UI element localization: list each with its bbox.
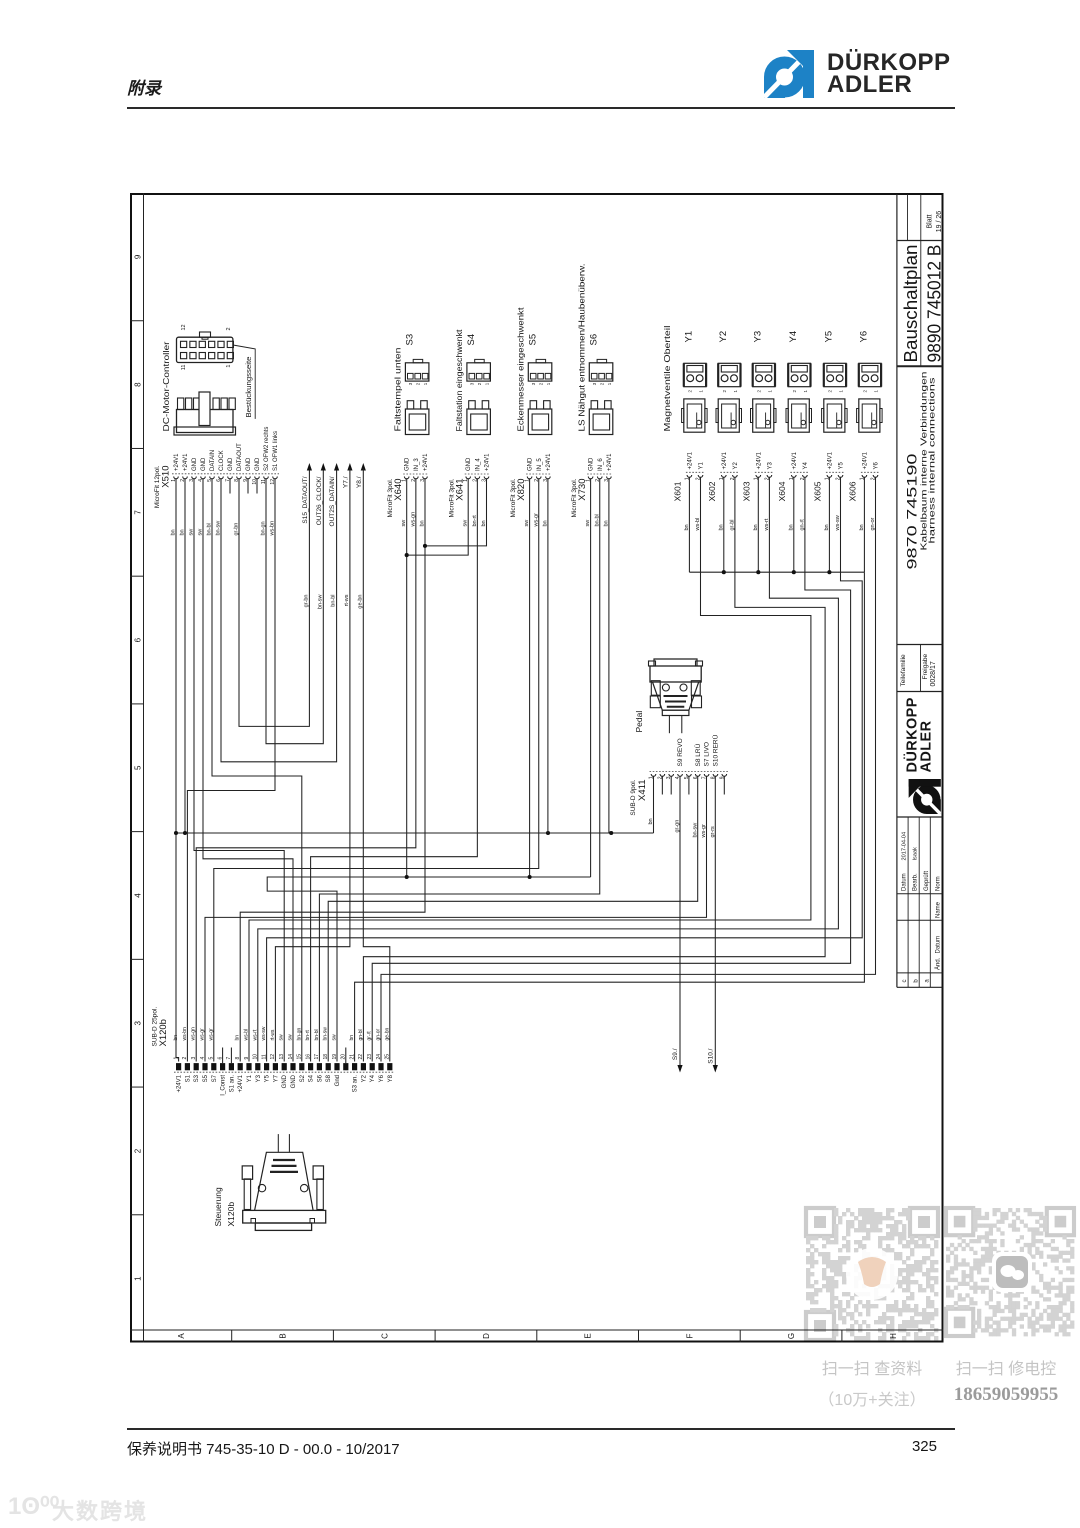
- title block section dividers: [896, 972, 942, 974]
- sensor S5 plug face view: [528, 363, 552, 381]
- wire X411 pin stubs: [661, 776, 663, 794]
- wire arrow Y7. to X120b.12: [275, 469, 350, 1062]
- valve Y4 plug side view: [788, 399, 809, 432]
- schematic sheet (rotated landscape drawing): [130, 193, 944, 1343]
- Steuerung feet: [251, 1219, 256, 1224]
- connector X604 dashed line: [790, 471, 808, 473]
- connector X640 pins: [404, 477, 409, 479]
- Pedal screw barrels: [651, 681, 660, 696]
- connector X820 dashed line: [526, 473, 551, 475]
- DC-Motor-Controller face latch: [199, 332, 210, 337]
- wire X601.1 +24V1 to valve bus: [688, 477, 690, 572]
- wire X510.5 DATAIN to X120b.15: [212, 479, 302, 1062]
- connector X605 dashed line: [825, 471, 843, 473]
- frame column strip line (numbers): [142, 193, 144, 1343]
- wire X601.2 Y1 to X120b.9: [249, 477, 811, 1061]
- title block DA logo mark: [908, 779, 940, 814]
- title block revision table row lines: [907, 817, 909, 987]
- header rule: [127, 107, 955, 109]
- connector X120b pads, pin numbers, names, colours: [176, 1063, 181, 1070]
- connector X411 dashed line: [649, 771, 728, 773]
- Steuerung screws: [244, 1179, 250, 1210]
- bottom-left watermark: [8, 1492, 59, 1521]
- connector X602 dashed line: [720, 471, 738, 473]
- wire X641.1 GND joins X640.1: [406, 479, 468, 555]
- wire arrow Y8. to X120b.25: [363, 469, 390, 1062]
- sensor S4 plug side view: [466, 409, 490, 435]
- connector X730 pins: [588, 477, 593, 479]
- wire X606.1 +24V1 to valve bus: [863, 477, 865, 572]
- wire X730.3 +24V1 to bus A: [607, 479, 609, 833]
- sensor S3 plug side view: [405, 409, 429, 435]
- Pedal D-sub connector drawing: [650, 666, 701, 682]
- Duerkopp Adler logo mark (blue): [763, 49, 816, 99]
- DC-Motor-Controller connector side view: [176, 410, 233, 433]
- connector X602 pins: [721, 475, 726, 477]
- connector X605 pins: [827, 475, 832, 477]
- valve Y3 plug side view: [752, 399, 773, 432]
- wire valve bus to X120b.21: [354, 572, 864, 1061]
- wire X411.8 S10 to off-page arrow S10./: [714, 776, 716, 1070]
- wire X641.2 S4 to X120b.16: [310, 479, 477, 1062]
- valve +24V1 bn bus vertical: [689, 571, 864, 573]
- frame outer border: [131, 194, 943, 1342]
- valve Y6 plug face view: [858, 363, 880, 386]
- title block Blatt cell divider: [906, 194, 908, 241]
- QR centre icons: [846, 1248, 898, 1300]
- wire X510 pin7 stub: [229, 479, 231, 494]
- valve Y2 plug side view: [718, 399, 739, 432]
- wire X820.2 S5 to X120b.5: [213, 479, 538, 1062]
- wire X510.11 S2 to arrow OUT26_CLOCK: [266, 469, 323, 744]
- wire X510.6 CLOCK to arrow OUT2S_DATAIN: [221, 469, 337, 762]
- sensor S5 plug side view: [528, 409, 552, 435]
- frame row strip line (letters): [130, 1329, 944, 1331]
- frame column ticks and numbers 1-9: [130, 1214, 144, 1216]
- connector X411 pins: [651, 774, 656, 776]
- sensor S6 plug side view: [589, 409, 613, 435]
- sensor S3 plug face view: [405, 363, 429, 381]
- wire X730.2 S6 to X120b.17: [319, 479, 599, 1062]
- valve Y5 plug face view: [823, 363, 845, 386]
- wire X411.1 bn to bus A: [652, 776, 654, 833]
- off-page arrow Y8.: [360, 463, 365, 471]
- connector X601 pins: [687, 475, 692, 477]
- connector X604 pins: [791, 475, 796, 477]
- connector X510 dashed line: [172, 473, 279, 475]
- connector X820 pins: [527, 477, 532, 479]
- title block outline: [896, 986, 942, 988]
- wire X730.1 GND to bus B: [589, 479, 591, 877]
- wire X605.1 +24V1 to valve bus: [828, 477, 830, 572]
- valve Y4 plug face view: [788, 363, 810, 386]
- connector X603 pins: [756, 475, 761, 477]
- wire X411.4 S9 to off-page arrow S9./: [679, 776, 681, 1070]
- wire X605.2 Y5 to X120b.11: [266, 477, 862, 1061]
- connector X640 dashed line: [403, 473, 428, 475]
- wire X411.6 S8 to X120b.18: [328, 776, 698, 1061]
- connector X606 pins: [862, 475, 867, 477]
- wire X640.1 GND to bus B: [405, 479, 407, 877]
- valve Y1 plug side view: [683, 399, 704, 432]
- wire X640.3 +24V1 to X120b.8: [240, 479, 425, 1062]
- valve Y6 plug side view: [858, 399, 879, 432]
- valve Y2 plug face view: [718, 363, 740, 386]
- sensor S6 plug face view: [589, 363, 613, 381]
- connector X641 pins: [465, 477, 470, 479]
- title block Teilefamilie divider: [919, 645, 921, 692]
- bus B GND vertical to X120b.19: [267, 877, 590, 1062]
- wire X640.2 S3 to X120b.3: [196, 479, 416, 1062]
- wire X602.2 Y2 to X120b.22: [363, 477, 825, 1061]
- wire X510.8 DATAOUT to arrow S15_DATAOUT: [239, 469, 309, 727]
- wire X820.3 +24V1 to bus A: [546, 479, 548, 833]
- valve Y1 plug face view: [683, 363, 705, 386]
- wire X510.12 S1 to X120b.2: [187, 479, 275, 1062]
- off-page arrow OUT2S_DATAIN: [334, 463, 339, 471]
- wire X604.1 +24V1 to valve bus: [792, 477, 794, 572]
- connector X510 pins and numbers: [173, 477, 178, 479]
- header appendix text: [127, 74, 161, 99]
- wire X603.2 Y3 to X120b.10: [257, 477, 838, 1061]
- connector X730 dashed line: [587, 473, 612, 475]
- wire X641.3 +24V1 joins X640.3: [425, 479, 487, 546]
- off-page arrow OUT26_CLOCK: [320, 463, 325, 471]
- sensor S4 plug face view: [466, 363, 490, 381]
- Steuerung D-sub hood drawing: [255, 1223, 311, 1230]
- Duerkopp Adler logo text: [827, 52, 951, 96]
- off-page arrow Y7.: [347, 463, 352, 471]
- wire X606.2 Y6 to X120b.24: [381, 477, 876, 1061]
- bus +24V1 vertical: [176, 832, 654, 834]
- valve Y3 plug face view: [752, 363, 774, 386]
- wire X411.7 S7 to X120b.4: [205, 776, 707, 1061]
- wire X602.1 +24V1 to valve bus: [722, 477, 724, 572]
- connector X601 dashed line: [685, 471, 703, 473]
- frame row ticks and letters A-H: [230, 1330, 232, 1343]
- junction dots on +24V1 bus: [173, 831, 177, 835]
- off-page arrow S15_DATAOUT: [306, 463, 311, 471]
- Pedal cable stubs: [668, 716, 670, 734]
- connector X603 dashed line: [754, 471, 772, 473]
- connector X120b dashed line: [174, 1071, 394, 1073]
- wire X510 pin9 stub: [247, 479, 249, 494]
- footer rule: [127, 1428, 955, 1430]
- wire X604.2 Y4 to X120b.23: [372, 477, 850, 1061]
- watermark captions: [806, 1355, 938, 1379]
- connector X641 dashed line: [464, 473, 489, 475]
- footer text: [127, 1438, 400, 1459]
- connector X606 dashed line: [860, 471, 878, 473]
- wire X820.1 GND to bus B: [528, 479, 530, 877]
- Steuerung cable stubs: [277, 1134, 279, 1152]
- valve Y5 plug side view: [823, 399, 844, 432]
- wire X510 pin10 stub: [256, 479, 258, 494]
- DC-Motor-Controller connector face view: [176, 337, 232, 362]
- wire X510.1 +24V1 to X120b.1: [176, 479, 179, 1062]
- title block big row divider: [919, 194, 921, 366]
- wire X510.2 +24V1 to bus A: [184, 479, 186, 833]
- wire X603.1 +24V1 to valve bus: [757, 477, 759, 572]
- wire X510.4 GND to X120b.14: [203, 479, 293, 1062]
- wire X510.3 GND to X120b.13: [194, 479, 284, 1062]
